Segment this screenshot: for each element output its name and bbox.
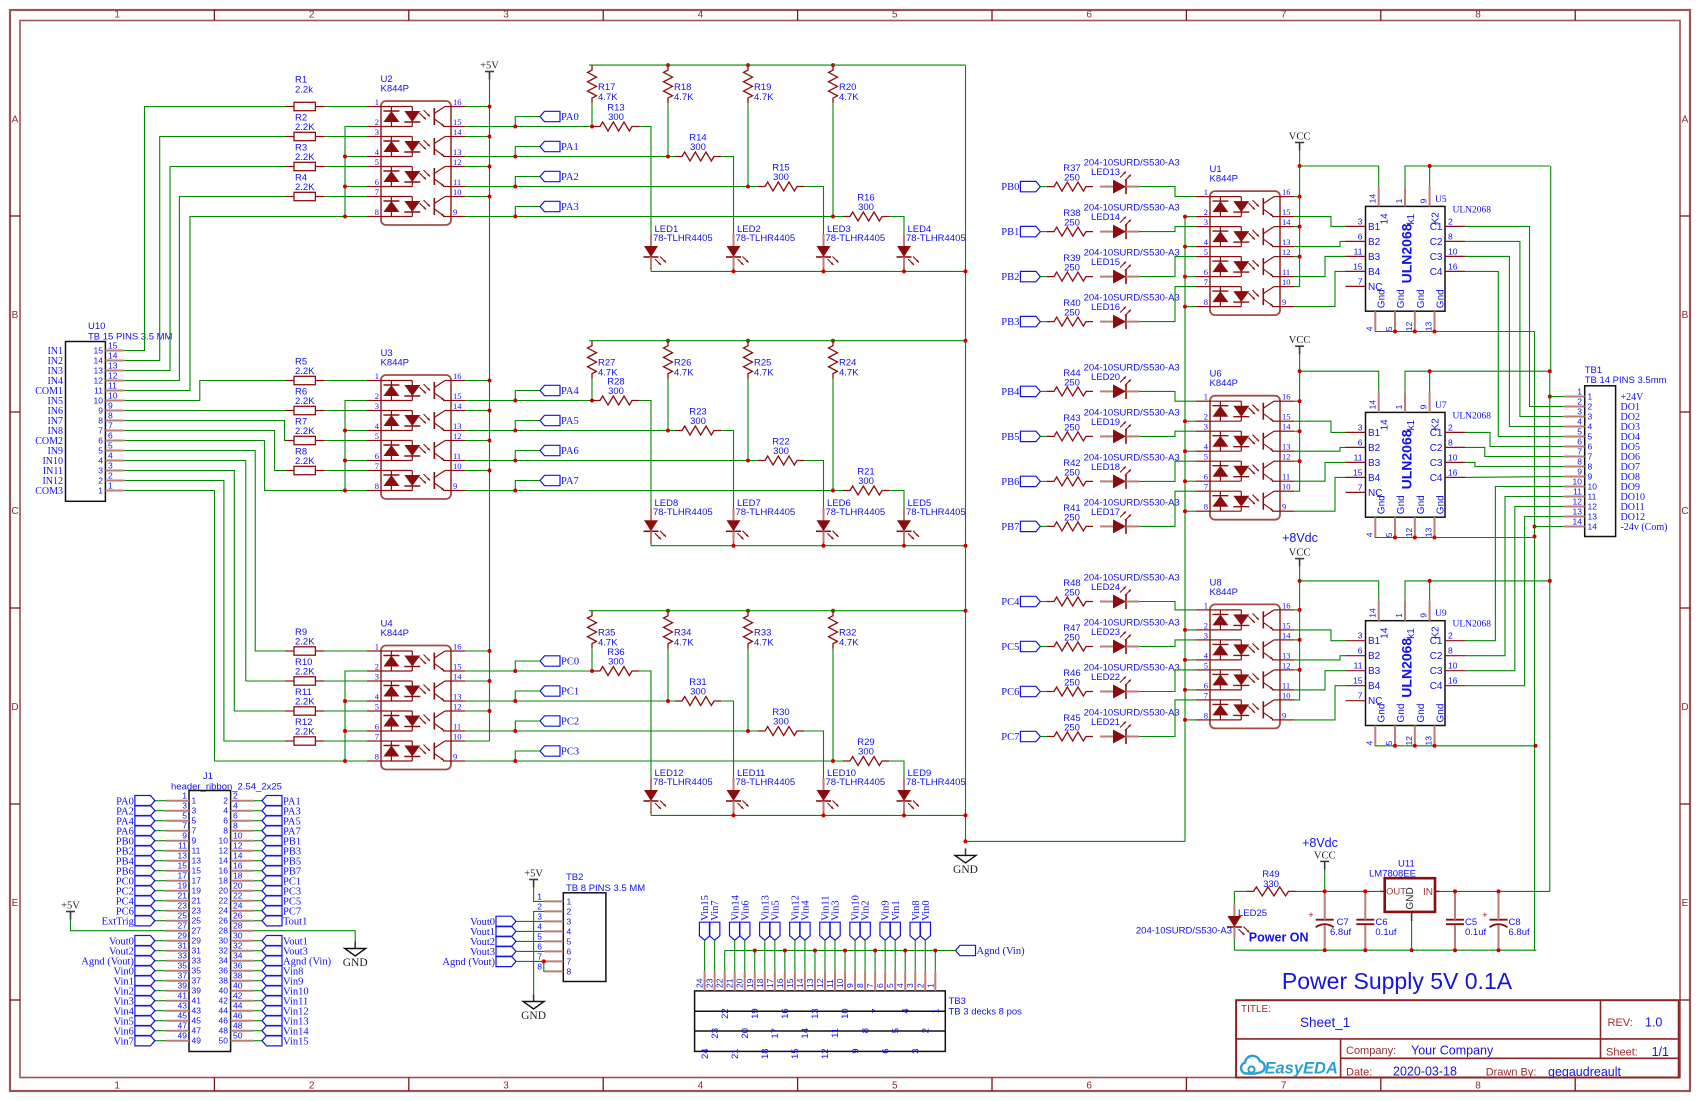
svg-text:20: 20 (233, 881, 243, 891)
svg-text:10: 10 (1448, 661, 1458, 671)
svg-text:Gnd: Gnd (1396, 289, 1407, 308)
wire emitter row PA5 (465, 430, 515, 432)
svg-text:15: 15 (192, 866, 202, 876)
svg-text:250: 250 (1064, 218, 1080, 229)
LED LED12 78-TLHR4405 (644, 768, 713, 813)
wire cathode taps (1185, 629, 1196, 631)
svg-text:LED13: LED13 (1091, 167, 1120, 178)
svg-text:NC: NC (1368, 696, 1382, 707)
svg-text:Sheet_1: Sheet_1 (1300, 1015, 1350, 1030)
wire PC6 to R46 (1040, 691, 1048, 693)
wire collectors to VCC (1294, 609, 1300, 611)
svg-text:3: 3 (1577, 407, 1582, 417)
net flag PA0 (155, 800, 166, 802)
svg-text:4: 4 (98, 456, 103, 466)
svg-text:1: 1 (1394, 198, 1404, 203)
svg-text:33: 33 (178, 951, 188, 961)
svg-text:3: 3 (192, 806, 197, 816)
svg-text:Vin13: Vin13 (760, 895, 771, 921)
svg-text:4: 4 (223, 806, 228, 816)
resistor R22 300 (758, 437, 804, 466)
svg-text:3: 3 (182, 801, 187, 811)
svg-text:300: 300 (858, 476, 874, 487)
net flag Vin4 (155, 1010, 166, 1012)
svg-text:12: 12 (233, 841, 243, 851)
svg-text:25: 25 (178, 911, 188, 921)
svg-text:TITLE:: TITLE: (1241, 1004, 1271, 1015)
svg-text:22: 22 (233, 891, 243, 901)
wire LED16 to U1 pin (1139, 287, 1196, 322)
wire +5V rail vertical (489, 80, 491, 742)
svg-text:PA7: PA7 (561, 476, 579, 487)
svg-text:4: 4 (108, 451, 113, 461)
svg-text:10: 10 (453, 732, 462, 742)
svg-text:GND: GND (343, 957, 368, 969)
wire emitter row PA1 (465, 156, 515, 158)
svg-text:13: 13 (453, 421, 462, 431)
svg-text:12: 12 (1588, 502, 1598, 512)
svg-text:14: 14 (1368, 194, 1378, 204)
svg-text:16: 16 (233, 861, 243, 871)
svg-text:2.2k: 2.2k (295, 85, 313, 96)
svg-text:8: 8 (1588, 462, 1593, 472)
svg-text:8: 8 (1448, 646, 1453, 656)
resistor R8 2.2K (285, 446, 324, 474)
wire pull-up rail horizontal (589, 64, 966, 66)
svg-text:5: 5 (890, 1028, 901, 1033)
svg-text:10: 10 (1282, 690, 1291, 700)
LED LED9 78-TLHR4405 (897, 768, 966, 813)
svg-text:11: 11 (178, 841, 187, 851)
svg-text:ULN2068: ULN2068 (1453, 411, 1492, 421)
resistor R26 4.7K pull-up (664, 341, 695, 379)
svg-text:15: 15 (1282, 207, 1291, 217)
wire LED17 to U6 pin (1139, 491, 1196, 526)
svg-text:46: 46 (219, 1016, 229, 1026)
net flag PA5 (254, 820, 262, 822)
optocoupler U8 K844P (1196, 577, 1294, 728)
J1 pin 2 (231, 800, 254, 802)
svg-text:22: 22 (715, 978, 725, 988)
svg-text:25: 25 (192, 916, 202, 926)
J1 pin 13 (166, 860, 189, 862)
svg-text:11: 11 (830, 1028, 841, 1038)
net flag Agnd (Vin) (254, 960, 262, 962)
net flag PC7 (1020, 731, 1040, 741)
net flag Vin6 (155, 1030, 166, 1032)
svg-text:TB 14 PINS 3.5mm: TB 14 PINS 3.5mm (1585, 375, 1667, 386)
svg-text:34: 34 (233, 951, 243, 961)
svg-text:46: 46 (233, 1011, 243, 1021)
svg-text:Gnd: Gnd (1436, 495, 1447, 514)
svg-text:4.7K: 4.7K (754, 368, 774, 379)
svg-text:6: 6 (1204, 267, 1208, 277)
wire LED2 to rail (733, 268, 735, 271)
svg-text:45: 45 (178, 1011, 188, 1021)
svg-text:11: 11 (453, 451, 461, 461)
J1 pin 8 (231, 830, 254, 832)
wire LED21 to U8 pin (1139, 700, 1196, 737)
net flag Vin8 (910, 922, 920, 940)
svg-text:14: 14 (1368, 400, 1378, 410)
svg-text:11: 11 (192, 846, 201, 856)
wire LED10 to rail (823, 812, 825, 815)
svg-text:11: 11 (1282, 267, 1290, 277)
LED LED10 78-TLHR4405 (816, 768, 885, 813)
svg-text:2: 2 (309, 1081, 315, 1092)
svg-text:2: 2 (108, 471, 113, 481)
wire R17 to row (591, 103, 593, 126)
svg-text:11: 11 (825, 979, 835, 988)
svg-text:204-10SURD/S530-A3: 204-10SURD/S530-A3 (1136, 926, 1232, 937)
resistor R12 2.2K (285, 717, 324, 745)
svg-text:2.2K: 2.2K (295, 366, 315, 377)
svg-text:37: 37 (192, 976, 202, 986)
svg-text:6: 6 (1588, 442, 1593, 452)
svg-text:14: 14 (453, 401, 462, 411)
svg-text:E: E (12, 898, 19, 909)
wire IN4 to R4 (125, 197, 285, 381)
svg-text:9: 9 (182, 831, 187, 841)
svg-text:PB4: PB4 (1001, 387, 1020, 398)
svg-text:78-TLHR4405: 78-TLHR4405 (826, 507, 886, 518)
svg-text:B1: B1 (1368, 222, 1381, 233)
wire R13 to LED1 (639, 127, 651, 235)
svg-text:B3: B3 (1368, 458, 1381, 469)
svg-text:13: 13 (178, 851, 188, 861)
svg-text:6: 6 (537, 941, 542, 951)
svg-text:6: 6 (98, 436, 103, 446)
net flag PB2 (1020, 271, 1040, 281)
svg-text:+5V: +5V (480, 61, 499, 72)
svg-text:12: 12 (108, 371, 118, 381)
svg-text:50: 50 (219, 1036, 229, 1046)
svg-text:LED18: LED18 (1091, 462, 1120, 473)
svg-text:15: 15 (1353, 676, 1363, 686)
svg-text:2.2K: 2.2K (295, 636, 315, 647)
svg-text:3: 3 (1358, 216, 1363, 226)
resistor R10 2.2K (285, 657, 324, 685)
svg-text:12: 12 (453, 431, 462, 441)
svg-text:11: 11 (1573, 487, 1582, 497)
wire +5V to TB2 pin1 (534, 888, 545, 902)
svg-text:21: 21 (178, 891, 188, 901)
LED LED6 78-TLHR4405 (816, 498, 885, 543)
svg-text:5: 5 (182, 811, 187, 821)
svg-text:B4: B4 (1368, 473, 1381, 484)
wire emitter row PC2 (465, 730, 515, 732)
wire +24V spine (1550, 166, 1552, 371)
svg-text:Gnd: Gnd (1436, 289, 1447, 308)
wire pull-up rail horizontal (589, 610, 966, 612)
svg-text:24: 24 (233, 901, 243, 911)
svg-text:15: 15 (1353, 467, 1363, 477)
svg-text:2: 2 (233, 791, 238, 801)
svg-text:PB2: PB2 (1001, 272, 1019, 283)
J1 pin 33 (166, 960, 189, 962)
wire R32 to row (832, 649, 834, 761)
TB3 pin 15 (794, 971, 796, 991)
wire LED1 to rail (650, 268, 652, 271)
svg-text:GND: GND (521, 1010, 546, 1022)
net flag PC4 (1020, 596, 1040, 606)
svg-text:6: 6 (223, 816, 228, 826)
svg-text:Vin0: Vin0 (921, 900, 932, 920)
svg-text:16: 16 (453, 371, 462, 381)
svg-text:2.2K: 2.2K (295, 456, 315, 467)
svg-text:9: 9 (453, 207, 457, 217)
svg-text:Vin5: Vin5 (770, 900, 781, 920)
svg-text:250: 250 (1064, 263, 1080, 274)
wire IN rail (1440, 890, 1550, 892)
svg-text:1: 1 (537, 891, 542, 901)
svg-text:12: 12 (1573, 497, 1583, 507)
svg-text:13: 13 (1588, 512, 1598, 522)
svg-text:15: 15 (1282, 412, 1291, 422)
svg-text:11: 11 (1282, 680, 1290, 690)
svg-text:PC4: PC4 (1001, 597, 1020, 608)
LED LED20 204-10SURD/S530-A3 (1084, 362, 1180, 399)
LED LED18 204-10SURD/S530-A3 (1084, 452, 1180, 489)
svg-text:5: 5 (885, 983, 895, 988)
svg-text:2.2K: 2.2K (295, 152, 315, 163)
svg-text:36: 36 (219, 966, 229, 976)
svg-text:78-TLHR4405: 78-TLHR4405 (826, 233, 886, 244)
svg-text:VCC: VCC (1289, 548, 1311, 559)
net flag PB2 (155, 850, 166, 852)
wire ground pin (724, 951, 726, 972)
junction dot flag (513, 459, 517, 463)
svg-text:24: 24 (695, 978, 705, 988)
wire IN2 to R2 (125, 137, 285, 361)
wire R31 to LED11 (721, 701, 734, 778)
wire COM3 to U4 cathodes (125, 491, 367, 762)
svg-text:Vin14: Vin14 (730, 894, 741, 920)
svg-text:9: 9 (1588, 472, 1593, 482)
J1 pin 29 (166, 940, 189, 942)
svg-text:4: 4 (900, 1008, 911, 1013)
svg-text:8: 8 (223, 826, 228, 836)
net flag PC6 (1020, 686, 1040, 696)
LED LED2 78-TLHR4405 (726, 224, 795, 269)
net flag PA2 (155, 810, 166, 812)
svg-text:K844P: K844P (1210, 174, 1239, 185)
svg-text:3: 3 (1588, 412, 1593, 422)
wire VCC rail vertical (1294, 371, 1300, 491)
wire k1 K2 clamp rail (1405, 166, 1550, 186)
TB3 pin 14 (804, 971, 806, 991)
svg-text:PB7: PB7 (1001, 522, 1019, 533)
svg-text:5: 5 (192, 816, 197, 826)
svg-text:PC3: PC3 (561, 747, 579, 758)
svg-text:3: 3 (1204, 422, 1208, 432)
svg-text:6: 6 (875, 983, 885, 988)
svg-text:3: 3 (1204, 217, 1208, 227)
junction dot flag (513, 489, 517, 493)
wire U9 outputs to TB1 (1465, 487, 1564, 641)
svg-text:1: 1 (1394, 613, 1404, 618)
wire PB2 to R39 (1040, 276, 1048, 278)
J1 pin 28 (231, 930, 254, 932)
svg-text:14: 14 (94, 356, 104, 366)
svg-text:C4: C4 (1430, 267, 1443, 278)
svg-text:12: 12 (94, 376, 104, 386)
svg-text:31: 31 (192, 946, 202, 956)
TB3 pin 18 (764, 971, 766, 991)
svg-text:36: 36 (233, 961, 243, 971)
svg-text:78-TLHR4405: 78-TLHR4405 (736, 507, 796, 518)
net flag Vin9 (880, 922, 890, 940)
svg-text:7: 7 (182, 821, 187, 831)
junction dot flag (513, 399, 517, 403)
svg-text:14: 14 (1282, 422, 1291, 432)
svg-text:8: 8 (855, 983, 865, 988)
svg-text:5: 5 (1384, 741, 1394, 746)
wire VCC to ULN pin14 (1300, 166, 1379, 186)
net flag Vin0 (155, 970, 166, 972)
svg-text:9: 9 (98, 406, 103, 416)
wire LED5 to rail (903, 543, 905, 546)
net flag PC5 (1020, 641, 1040, 651)
J1 pin 49 (166, 1040, 189, 1042)
resistor R13 300 (593, 103, 639, 132)
wire IN6 to R6 (125, 410, 285, 412)
svg-text:1: 1 (108, 481, 113, 491)
J1 pin 36 (231, 970, 254, 972)
svg-text:16: 16 (1282, 392, 1291, 402)
svg-text:5: 5 (567, 936, 572, 946)
svg-text:4.7K: 4.7K (674, 368, 694, 379)
svg-text:1: 1 (1204, 392, 1208, 402)
wire ULN gnd rail (1375, 745, 1535, 747)
svg-text:1: 1 (114, 1081, 120, 1092)
svg-text:PC6: PC6 (1001, 687, 1019, 698)
svg-text:Agnd (Vin): Agnd (Vin) (977, 946, 1026, 957)
svg-text:13: 13 (1424, 527, 1434, 537)
svg-text:4: 4 (537, 921, 542, 931)
net flag Vin1 (890, 922, 900, 940)
svg-text:10: 10 (453, 461, 462, 471)
svg-text:14: 14 (453, 127, 462, 137)
svg-text:PC1: PC1 (561, 687, 579, 698)
svg-text:Vin9: Vin9 (881, 900, 892, 920)
LED LED19 204-10SURD/S530-A3 (1084, 407, 1180, 444)
svg-text:13: 13 (108, 361, 118, 371)
wire emitter row PA7 (465, 490, 515, 492)
net flag Vin14 (254, 1030, 262, 1032)
svg-text:Gnd: Gnd (1416, 289, 1427, 308)
svg-text:11: 11 (453, 722, 461, 732)
svg-text:NC: NC (1368, 282, 1382, 293)
svg-text:A: A (1682, 114, 1689, 125)
wire R11 to opto (324, 710, 367, 712)
junction dot flag (513, 125, 517, 129)
net flag PB1 (254, 840, 262, 842)
svg-text:8: 8 (375, 481, 379, 491)
svg-text:5: 5 (108, 441, 113, 451)
svg-text:C3: C3 (1430, 666, 1443, 677)
svg-text:14: 14 (1588, 522, 1598, 532)
net flag Vout3 (254, 950, 262, 952)
svg-text:250: 250 (1064, 467, 1080, 478)
svg-text:78-TLHR4405: 78-TLHR4405 (653, 233, 713, 244)
svg-text:1: 1 (1588, 392, 1593, 402)
svg-text:17: 17 (770, 1028, 781, 1039)
junction dots (343, 155, 347, 159)
svg-text:17: 17 (178, 871, 188, 881)
wire emitter row PC3 (465, 760, 515, 762)
TB3 pin 21 (734, 971, 736, 991)
LED LED1 78-TLHR4405 (644, 224, 713, 269)
svg-text:8: 8 (537, 961, 542, 971)
svg-text:6: 6 (1204, 680, 1208, 690)
wire emitter row PA2 (465, 186, 515, 188)
svg-text:2: 2 (567, 906, 572, 916)
svg-text:1.0: 1.0 (1645, 1016, 1662, 1030)
net flag Vin2 (860, 922, 870, 940)
svg-text:9: 9 (108, 401, 113, 411)
J1 pin 48 (231, 1030, 254, 1032)
svg-text:5: 5 (375, 702, 379, 712)
svg-text:Gnd: Gnd (1436, 704, 1447, 723)
svg-text:39: 39 (178, 981, 188, 991)
J1 pin 37 (166, 980, 189, 982)
svg-text:7: 7 (567, 956, 572, 966)
svg-text:4.7K: 4.7K (754, 92, 774, 103)
svg-text:43: 43 (178, 1001, 188, 1011)
wire R33 to row (747, 649, 749, 731)
svg-text:Gnd: Gnd (1416, 495, 1427, 514)
net flag Vin0 (920, 922, 930, 940)
wire U3 cathode common (345, 401, 367, 491)
svg-text:8: 8 (1475, 1081, 1481, 1092)
resistor R42 250 (1047, 458, 1093, 486)
net flag PC0 (155, 880, 166, 882)
LED LED3 78-TLHR4405 (816, 224, 885, 269)
J1 pin 50 (231, 1040, 254, 1042)
wire R18 to row (667, 103, 669, 156)
svg-text:B1: B1 (1368, 428, 1381, 439)
svg-text:LED22: LED22 (1091, 672, 1120, 683)
LED LED23 204-10SURD/S530-A3 (1084, 618, 1180, 655)
wire PB6 to R42 (1040, 480, 1048, 482)
svg-text:1: 1 (375, 371, 379, 381)
svg-text:VCC: VCC (1314, 850, 1336, 861)
svg-text:2: 2 (309, 10, 315, 21)
LED LED22 204-10SURD/S530-A3 (1084, 663, 1180, 700)
svg-text:8: 8 (567, 966, 572, 976)
svg-text:19: 19 (745, 978, 755, 988)
net flag Vin7 (155, 1040, 166, 1042)
wire pull-up rail horizontal (589, 340, 966, 342)
svg-text:15: 15 (178, 861, 188, 871)
svg-text:5: 5 (1204, 660, 1208, 670)
J1 pin 45 (166, 1020, 189, 1022)
svg-text:12: 12 (1282, 247, 1291, 257)
wire R4 to opto (324, 196, 367, 198)
svg-text:C: C (1681, 506, 1688, 517)
resistor R31 300 (675, 677, 721, 706)
svg-text:6: 6 (375, 451, 379, 461)
wire emitter row PA6 (465, 460, 515, 462)
wire k1 K2 clamp rail (1405, 581, 1550, 601)
svg-text:PA6: PA6 (561, 446, 579, 457)
wire LED7 to rail (733, 543, 735, 546)
svg-text:ULN2068: ULN2068 (1399, 638, 1415, 698)
net flag PA0 (515, 117, 540, 127)
wire R34 to row (667, 649, 669, 701)
svg-text:4: 4 (895, 983, 905, 988)
